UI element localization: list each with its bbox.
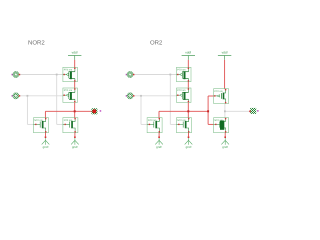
wire in2 vertical branch — [140, 96, 142, 125]
wire NMOS2 source to gnd (red) — [74, 133, 76, 137]
wire in1 horizontal (gray) — [20, 74, 63, 76]
wire vdd2 to inv pmos (red) — [224, 60, 226, 89]
wire in2 horizontal (gray) — [20, 95, 63, 97]
wire in2 to NMOS1 gate — [141, 123, 147, 125]
port out (NOR2) — [91, 108, 101, 114]
ground gnd3 (inverter) — [221, 136, 229, 149]
ground gnd1 — [42, 136, 50, 149]
pmos PM2 — [63, 88, 78, 102]
wire in2 vertical branch — [26, 96, 28, 125]
port out (OR2) — [249, 108, 258, 114]
junction output node — [74, 110, 76, 112]
junction in2 — [27, 95, 29, 97]
wire to inv nmos gate (red) — [208, 123, 214, 125]
svg-text:OR2: OR2 — [150, 40, 163, 47]
nmos NM2 — [63, 118, 78, 133]
wire nor node horizontal (red) — [159, 110, 208, 112]
wire in1 horizontal (gray) — [133, 74, 176, 76]
wire inv output horizontal (gray) — [225, 110, 250, 112]
wire PM2 to nor node (red) — [187, 103, 189, 118]
wire inv output vertical (gray) — [224, 104, 226, 118]
wire vdd to PM1 (red) — [187, 60, 189, 68]
port in1 — [12, 71, 21, 77]
wire in2 to NMOS1 gate — [27, 123, 33, 125]
wire in1 to NMOS2 gate — [57, 123, 63, 125]
pmos PM1 — [63, 67, 78, 81]
wire PM1 to PM2 (red) — [74, 82, 76, 88]
junction inv output — [224, 110, 226, 112]
wire in1 vertical branch — [169, 75, 171, 125]
port in1 (OR2) — [126, 71, 135, 77]
wire inv nmos source to gnd (red) — [224, 133, 226, 137]
pmos inverter — [214, 89, 229, 104]
junction inverter branch — [207, 110, 209, 112]
wire in2 horizontal (gray) — [133, 95, 176, 97]
ground gnd1 (OR2) — [155, 136, 163, 149]
port in2 — [12, 93, 21, 99]
power vdd! — [68, 50, 81, 60]
wire in1 to NMOS2 gate — [170, 123, 176, 125]
wire vdd to PM1 (red) — [74, 60, 76, 68]
wire to inverter gates vertical (red) — [207, 96, 209, 124]
nmos NM1 (OR2) — [147, 118, 162, 133]
wire NMOS2 source to gnd (red) — [188, 133, 190, 137]
junction in1 — [56, 74, 58, 76]
port in2 (OR2) — [126, 93, 135, 99]
wire PM1 to PM2 (red) — [187, 82, 189, 88]
junction in2 — [140, 95, 142, 97]
ground gnd2 — [71, 136, 79, 149]
power vdd! (inverter) — [218, 50, 231, 60]
nmos NM2 (OR2) — [177, 118, 192, 133]
ground gnd2 (OR2) — [185, 136, 193, 149]
wire in1 vertical branch — [56, 75, 58, 125]
svg-text:NOR2: NOR2 — [28, 40, 45, 47]
wire NMOS1 source to gnd (red) — [158, 133, 160, 137]
nmos inverter — [214, 118, 229, 133]
wire NMOS1 source to gnd (red) — [45, 133, 47, 137]
wire output to NMOS1 drain (red) — [44, 111, 46, 117]
nmos NM1 — [34, 118, 49, 133]
pmos PM2 (OR2) — [177, 88, 192, 102]
wire nor node to NMOS1 drain (red) — [158, 111, 160, 117]
wire output horizontal (red) — [45, 110, 91, 112]
wire to inv pmos gate (red) — [208, 95, 214, 97]
junction in1 — [169, 74, 171, 76]
junction nor node — [187, 110, 189, 112]
wire PM2 to output node (red) — [74, 103, 76, 118]
power vdd! (nor stage) — [182, 50, 195, 60]
pmos PM1 (OR2) — [177, 67, 192, 81]
